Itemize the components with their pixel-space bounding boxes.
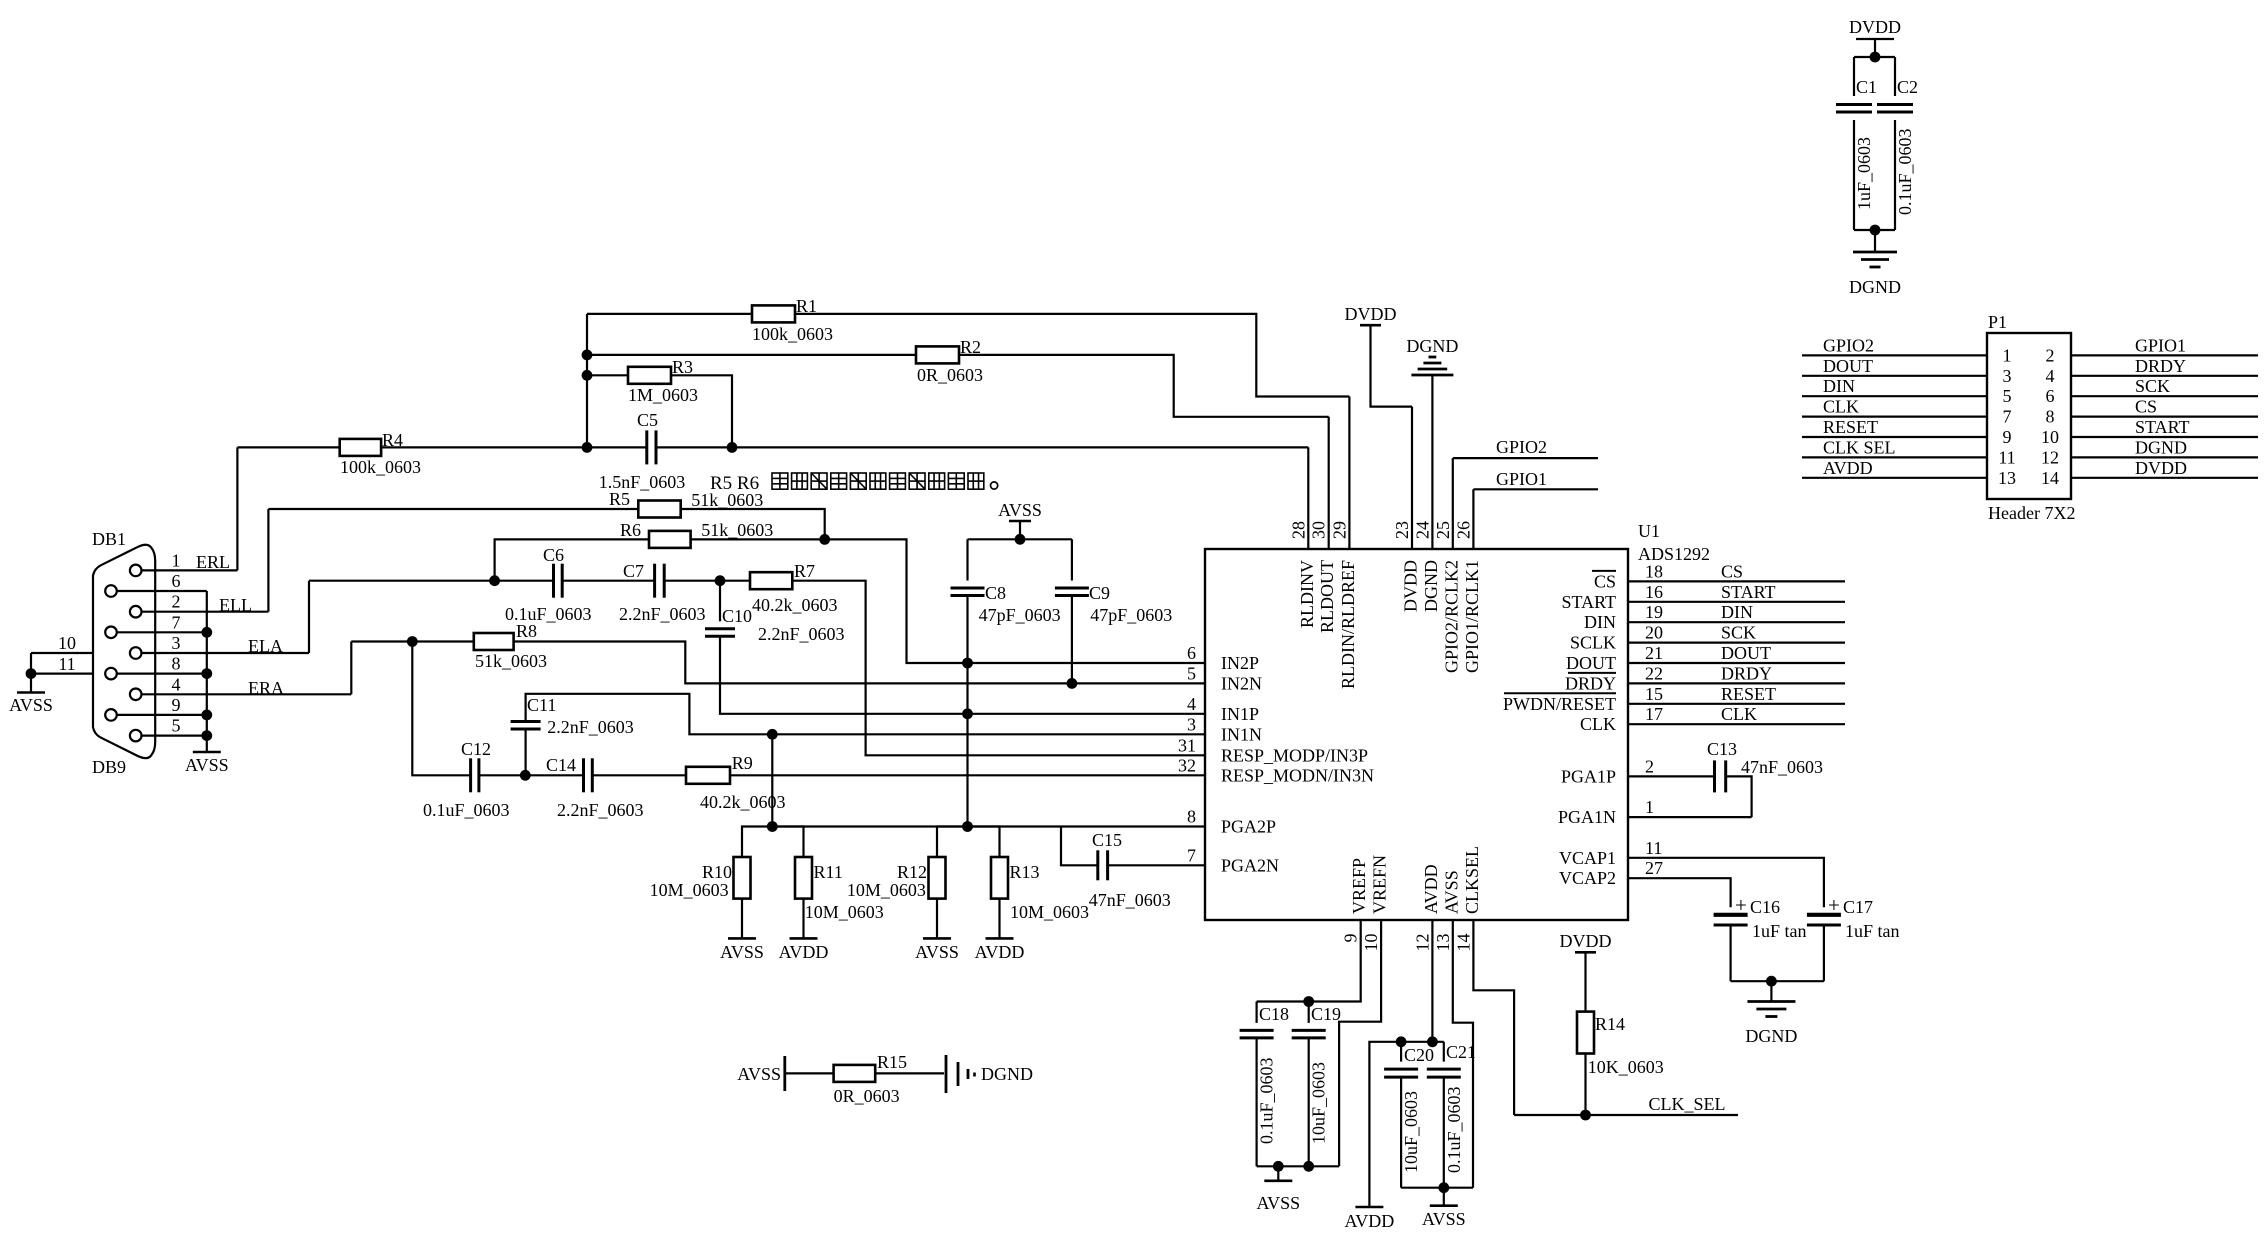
node R3-C5line bbox=[727, 442, 738, 453]
svg-text:7: 7 bbox=[2003, 407, 2012, 427]
svg-text:R3: R3 bbox=[672, 357, 693, 377]
U1 pin 23 DVDD top wire bbox=[1392, 407, 1421, 612]
svg-text:1M_0603: 1M_0603 bbox=[628, 385, 698, 405]
node riser-IN1P bbox=[962, 708, 973, 719]
P1 pin 11 wire / net CLK SEL bbox=[1802, 437, 2016, 467]
svg-text:R8: R8 bbox=[516, 621, 537, 641]
capacitor C15 47nF_0603 bracket bbox=[1061, 827, 1205, 911]
svg-text:AVSS: AVSS bbox=[915, 942, 959, 962]
capacitor C14 2.2nF_0603 bbox=[546, 755, 644, 820]
DB1 pin 3 circle and stub bbox=[130, 633, 309, 659]
DB1 pin 10 wire bbox=[31, 633, 93, 653]
resistor R6 51k_0603 bbox=[495, 520, 825, 581]
svg-text:32: 32 bbox=[1178, 755, 1196, 775]
svg-text:6: 6 bbox=[1187, 643, 1196, 663]
svg-text:C8: C8 bbox=[985, 583, 1006, 603]
wire R7 to RESP_MODP row 31 bbox=[792, 581, 1205, 756]
svg-text:100k_0603: 100k_0603 bbox=[752, 324, 833, 344]
node DGND stub bbox=[1766, 976, 1777, 987]
svg-text:5: 5 bbox=[2003, 386, 2012, 406]
overline for DRDY bbox=[1568, 672, 1616, 674]
svg-text:R9: R9 bbox=[732, 753, 753, 773]
node R12/R13 junction bbox=[962, 821, 973, 832]
P1 pin 4 wire / net DRDY bbox=[2046, 356, 2259, 386]
U1 pin 3 label IN1N bbox=[1187, 714, 1262, 744]
node R8-C12 junction bbox=[407, 636, 418, 647]
capacitor C8 47pF_0603 bbox=[951, 539, 1061, 663]
node riser-IN1N bbox=[767, 729, 778, 740]
U1 pin 10 VREFN bottom label bbox=[1361, 855, 1390, 952]
svg-text:11: 11 bbox=[1645, 838, 1662, 858]
node C8-IN2P bbox=[962, 658, 973, 669]
connector P1 Header 7X2 bbox=[1987, 312, 2075, 523]
svg-text:C9: C9 bbox=[1089, 583, 1110, 603]
svg-text:CLK: CLK bbox=[1721, 704, 1757, 724]
svg-text:CLKSEL: CLKSEL bbox=[1462, 846, 1482, 914]
svg-text:9: 9 bbox=[172, 695, 181, 715]
power symbol DVDD above U1 pin23 bbox=[1345, 304, 1413, 407]
svg-text:AVDD: AVDD bbox=[975, 942, 1025, 962]
node pin11 junction bbox=[26, 668, 37, 679]
svg-text:DRDY: DRDY bbox=[2135, 356, 2186, 376]
svg-text:RESP_MODN/IN3N: RESP_MODN/IN3N bbox=[1221, 765, 1374, 785]
node R14-CLKSEL bbox=[1580, 1110, 1591, 1121]
wire C7 to R7 bbox=[664, 580, 750, 582]
wire left trunk x=587 bbox=[586, 314, 588, 448]
svg-text:RLDOUT: RLDOUT bbox=[1317, 560, 1337, 633]
svg-text:24: 24 bbox=[1412, 521, 1432, 539]
svg-text:14: 14 bbox=[1453, 934, 1473, 952]
node DVDD-C1C2 top junction bbox=[1870, 52, 1881, 63]
node bus junction pin 5 bbox=[201, 730, 212, 741]
svg-text:10: 10 bbox=[1361, 934, 1381, 952]
svg-text:7: 7 bbox=[1187, 845, 1196, 865]
svg-text:2: 2 bbox=[1645, 756, 1654, 776]
DB1 pin 4 circle and stub bbox=[130, 674, 351, 700]
wire R8 to IN2N row bbox=[514, 642, 1205, 684]
ground DGND above U1 pin24 (inverted earth) bbox=[1406, 336, 1458, 375]
svg-text:10M_0603: 10M_0603 bbox=[650, 880, 729, 900]
wire PGA1N row bbox=[1628, 816, 1752, 818]
svg-text:4: 4 bbox=[172, 674, 181, 694]
resistor R1 100k_0603 bbox=[587, 296, 833, 344]
node C1/C2 bottom junction bbox=[1870, 225, 1881, 236]
svg-text:R13: R13 bbox=[1010, 862, 1040, 882]
connector DB1 (DB9) body bbox=[92, 529, 155, 777]
wire VCAP1 to C17 bbox=[1628, 858, 1824, 908]
U1 pin 18 CS / wire net CS bbox=[1594, 561, 1845, 591]
svg-text:CS: CS bbox=[1721, 561, 1743, 581]
svg-text:CS: CS bbox=[2135, 397, 2157, 417]
svg-text:8: 8 bbox=[2046, 407, 2055, 427]
capacitor C9 47pF_0603 bbox=[1055, 539, 1172, 683]
svg-text:R4: R4 bbox=[382, 430, 403, 450]
net CLK_SEL wire bbox=[1514, 1094, 1738, 1115]
wire U1 pin10 VREFN route bbox=[1339, 920, 1381, 1166]
svg-text:9: 9 bbox=[2003, 427, 2012, 447]
svg-text:RESET: RESET bbox=[1721, 684, 1776, 704]
svg-text:C14: C14 bbox=[546, 755, 576, 775]
svg-text:DGND: DGND bbox=[1406, 336, 1458, 356]
svg-text:AVSS: AVSS bbox=[737, 1064, 781, 1084]
svg-text:CLK: CLK bbox=[1823, 397, 1859, 417]
wire R5 right drop to R6 line bbox=[681, 509, 825, 539]
svg-text:3: 3 bbox=[1187, 714, 1196, 734]
wire C20/C21 bottom rail bbox=[1401, 1187, 1473, 1189]
wire R9 to RESP_MODN row 32 bbox=[730, 774, 1205, 776]
ground DGND (top right) bbox=[1849, 230, 1901, 297]
svg-text:100k_0603: 100k_0603 bbox=[340, 457, 421, 477]
svg-text:PWDN/RESET: PWDN/RESET bbox=[1503, 694, 1616, 714]
svg-text:0.1uF_0603: 0.1uF_0603 bbox=[1444, 1086, 1464, 1173]
svg-text:C11: C11 bbox=[527, 695, 556, 715]
svg-text:31: 31 bbox=[1178, 735, 1196, 755]
svg-text:AVDD: AVDD bbox=[1823, 458, 1873, 478]
capacitor C16 1uF tan (polarized) bbox=[1714, 893, 1807, 981]
ground AVSS left of DB1 bbox=[9, 674, 53, 715]
capacitor C5 1.5nF_0603 on RLDIN line bbox=[587, 410, 1308, 492]
svg-text:PGA2N: PGA2N bbox=[1221, 855, 1279, 875]
U1 pin 8 label PGA2P bbox=[1187, 807, 1276, 837]
DB1 pin 11 wire bbox=[31, 654, 93, 674]
svg-text:27: 27 bbox=[1645, 858, 1663, 878]
svg-text:2.2nF_0603: 2.2nF_0603 bbox=[619, 604, 706, 624]
U1 pin 29 RLDIN/RLDREF top wire bbox=[1329, 397, 1358, 690]
node C9-IN2N bbox=[1067, 678, 1078, 689]
U1 pin 7 label PGA2N bbox=[1187, 845, 1279, 875]
svg-text:U1: U1 bbox=[1638, 521, 1660, 541]
DB1 pin 9 circle and stub bbox=[105, 695, 207, 721]
svg-text:20: 20 bbox=[1645, 623, 1663, 643]
svg-text:0.1uF_0603: 0.1uF_0603 bbox=[1895, 128, 1915, 215]
ground AVDD below R11 bbox=[779, 938, 829, 962]
svg-text:C13: C13 bbox=[1707, 739, 1737, 759]
svg-text:GPIO2: GPIO2 bbox=[1823, 335, 1874, 355]
svg-text:ELL: ELL bbox=[219, 595, 252, 615]
node R5/R6 join bbox=[819, 534, 830, 545]
svg-text:25: 25 bbox=[1433, 521, 1453, 539]
capacitor C1 1uF_0603 bbox=[1836, 77, 1877, 210]
svg-text:1uF tan: 1uF tan bbox=[1845, 921, 1900, 941]
svg-text:8: 8 bbox=[172, 654, 181, 674]
svg-text:6: 6 bbox=[172, 571, 181, 591]
net ELL wire (DB1 pin2 to R5) bbox=[219, 509, 268, 615]
resistor R15 0R_0603 bbox=[785, 1052, 944, 1106]
power symbol DVDD above R14 bbox=[1560, 931, 1612, 1012]
node bus junction pin 8 bbox=[201, 668, 212, 679]
U1 pin 28 RLDINV top wire bbox=[1288, 447, 1317, 628]
wire R1 to U1 pin29 bbox=[795, 314, 1349, 397]
node C19 bottom bbox=[1303, 1161, 1314, 1172]
svg-text:19: 19 bbox=[1645, 602, 1663, 622]
overline for CS bbox=[1592, 570, 1616, 572]
resistor R2 0R_0603 bbox=[587, 337, 983, 385]
svg-text:0R_0603: 0R_0603 bbox=[834, 1086, 900, 1106]
svg-text:R12: R12 bbox=[897, 862, 927, 882]
U1 pin 2 PGA1P bbox=[1561, 756, 1654, 786]
capacitor C12 0.1uF_0603 bbox=[423, 739, 510, 820]
U1 pin 27 VCAP2 bbox=[1559, 858, 1663, 888]
U1 pin 13 AVSS bottom label bbox=[1433, 870, 1462, 951]
svg-text:GPIO1: GPIO1 bbox=[1496, 469, 1547, 489]
svg-text:DVDD: DVDD bbox=[1560, 931, 1612, 951]
capacitor C13 47nF_0603 bbox=[1628, 739, 1823, 817]
resistor R10 10M_0603 bbox=[650, 827, 773, 939]
svg-text:14: 14 bbox=[2041, 468, 2059, 488]
svg-text:VCAP2: VCAP2 bbox=[1559, 868, 1616, 888]
capacitor C10 2.2nF_0603 bbox=[705, 581, 1205, 714]
net ELA wire (DB1 pin3 riser) bbox=[248, 581, 309, 656]
P1 pin 5 wire / net DIN bbox=[1802, 376, 2012, 406]
svg-text:51k_0603: 51k_0603 bbox=[701, 520, 773, 540]
svg-text:SCK: SCK bbox=[1721, 623, 1756, 643]
svg-text:SCK: SCK bbox=[2135, 376, 2170, 396]
svg-text:+: + bbox=[1828, 893, 1840, 917]
wire C18/C19 bottom rail bbox=[1257, 1165, 1340, 1167]
U1 pin 15 PWDN/RESET / wire net RESET bbox=[1503, 684, 1845, 714]
P1 pin 14 wire / net DVDD bbox=[2041, 458, 2258, 488]
DB1 ground bus (pins 6,7,8,9,5) bbox=[206, 591, 208, 752]
DB1 pin 1 circle and stub bbox=[130, 550, 238, 576]
P1 pin 1 wire / net GPIO2 bbox=[1802, 335, 2012, 365]
DB1 pin 7 circle and stub bbox=[105, 612, 207, 638]
svg-text:R15: R15 bbox=[877, 1052, 907, 1072]
capacitor C19 10uF_0603 bbox=[1292, 1002, 1341, 1167]
capacitor C11 2.2nF_0603 bbox=[511, 694, 1205, 776]
svg-text:C21: C21 bbox=[1446, 1042, 1476, 1062]
capacitor C18 0.1uF_0603 bbox=[1240, 1002, 1289, 1167]
svg-text:1uF tan: 1uF tan bbox=[1752, 921, 1807, 941]
wire U1 pin14 CLKSEL route bbox=[1473, 920, 1514, 1115]
net GPIO2 wire bbox=[1453, 437, 1598, 458]
resistor R5 51k_0603 bbox=[268, 489, 763, 518]
svg-text:GPIO2/RCLK2: GPIO2/RCLK2 bbox=[1441, 560, 1461, 673]
ground AVDD below R13 bbox=[975, 938, 1025, 962]
svg-text:AVSS: AVSS bbox=[1441, 870, 1461, 914]
svg-text:AVSS: AVSS bbox=[1422, 1209, 1466, 1229]
svg-text:R7: R7 bbox=[794, 561, 815, 581]
capacitor C6 0.1uF_0603 bbox=[309, 545, 592, 624]
svg-text:IN2N: IN2N bbox=[1221, 673, 1262, 693]
U1 pin 14 CLKSEL bottom label bbox=[1453, 846, 1482, 952]
node pin12-rail bbox=[1427, 1036, 1438, 1047]
svg-text:10M_0603: 10M_0603 bbox=[1010, 902, 1089, 922]
svg-text:DGND: DGND bbox=[981, 1064, 1033, 1084]
svg-text:C12: C12 bbox=[461, 739, 491, 759]
svg-text:DB9: DB9 bbox=[92, 757, 126, 777]
svg-text:DVDD: DVDD bbox=[1849, 17, 1901, 37]
svg-text:DIN: DIN bbox=[1823, 376, 1855, 396]
svg-text:2: 2 bbox=[172, 592, 181, 612]
wire R2 to U1 pin30 bbox=[959, 355, 1329, 417]
U1 pin 22 DRDY / wire net DRDY bbox=[1565, 663, 1845, 693]
capacitor C20 10uF_0603 bbox=[1384, 1042, 1434, 1188]
wire VCAP2 to C16 bbox=[1628, 878, 1731, 907]
svg-text:CS: CS bbox=[1594, 571, 1616, 591]
wire R3 right drop to C5 line bbox=[671, 375, 732, 447]
ground DGND right of R15 (sideways) bbox=[946, 1055, 1033, 1093]
svg-text:C16: C16 bbox=[1750, 897, 1780, 917]
node trunk-R3 bbox=[582, 370, 593, 381]
wire C8/C9 top rail bbox=[968, 538, 1072, 540]
svg-text:C15: C15 bbox=[1092, 830, 1122, 850]
wire PGA2P row bbox=[772, 825, 1205, 827]
ground AVSS below C18/C19 bbox=[1256, 1166, 1300, 1213]
ground DGND below C16/C17 bbox=[1745, 981, 1797, 1046]
svg-text:R11: R11 bbox=[814, 862, 843, 882]
svg-text:SCLK: SCLK bbox=[1570, 633, 1616, 653]
P1 pin 2 wire / net GPIO1 bbox=[2046, 335, 2259, 365]
wire C20/C21 top rail + AVDD riser bbox=[1369, 1042, 1443, 1207]
U1 pin 30 RLDOUT top wire bbox=[1309, 417, 1338, 633]
svg-text:C19: C19 bbox=[1311, 1004, 1341, 1024]
svg-text:4: 4 bbox=[2046, 366, 2055, 386]
svg-text:10uF_0603: 10uF_0603 bbox=[1401, 1091, 1421, 1173]
resistor R13 10M_0603 bbox=[968, 827, 1090, 939]
svg-text:10M_0603: 10M_0603 bbox=[847, 880, 926, 900]
svg-text:10K_0603: 10K_0603 bbox=[1588, 1057, 1664, 1077]
wire pin10/11 join bbox=[30, 653, 32, 674]
svg-text:29: 29 bbox=[1329, 521, 1349, 539]
net AVSS port (R15 left) bbox=[737, 1056, 785, 1091]
svg-text:51k_0603: 51k_0603 bbox=[475, 651, 547, 671]
svg-text:13: 13 bbox=[1998, 468, 2016, 488]
node bus junction pin 9 bbox=[201, 710, 212, 721]
ground AVSS below C20/C21 bbox=[1422, 1188, 1466, 1229]
U1 pin 17 CLK / wire net CLK bbox=[1580, 704, 1845, 734]
svg-text:47nF_0603: 47nF_0603 bbox=[1089, 890, 1171, 910]
overline for PWDN/RESET bbox=[1504, 692, 1616, 694]
U1 pin 4 label IN1P bbox=[1187, 694, 1259, 724]
resistor R11 10M_0603 bbox=[772, 827, 883, 939]
svg-text:16: 16 bbox=[1645, 582, 1663, 602]
P1 pin 12 wire / net DGND bbox=[2041, 437, 2258, 467]
power AVDD below rail bbox=[1345, 1207, 1395, 1231]
U1 pin 31 label RESP_MODP/IN3P bbox=[1178, 735, 1368, 765]
svg-text:+: + bbox=[1735, 893, 1747, 917]
svg-text:C1: C1 bbox=[1856, 77, 1877, 97]
node bus junction pin 7 bbox=[201, 627, 212, 638]
svg-text:AVSS: AVSS bbox=[185, 755, 229, 775]
svg-text:3: 3 bbox=[2003, 366, 2012, 386]
svg-text:28: 28 bbox=[1288, 521, 1308, 539]
svg-text:12: 12 bbox=[1412, 934, 1432, 952]
svg-text:START: START bbox=[1721, 582, 1775, 602]
svg-text:18: 18 bbox=[1645, 561, 1663, 581]
svg-text:RLDIN/RLDREF: RLDIN/RLDREF bbox=[1338, 560, 1358, 689]
svg-text:VREFP: VREFP bbox=[1349, 858, 1369, 914]
U1 pin 25 GPIO2/RCLK2 top wire bbox=[1433, 458, 1462, 673]
svg-text:DOUT: DOUT bbox=[1566, 653, 1616, 673]
wire U1 pin13 AVSS route bbox=[1453, 920, 1473, 1188]
svg-text:CLK: CLK bbox=[1580, 714, 1616, 734]
svg-text:12: 12 bbox=[2041, 447, 2059, 467]
svg-text:DVDD: DVDD bbox=[2135, 458, 2187, 478]
svg-text:1: 1 bbox=[1645, 797, 1654, 817]
P1 pin 6 wire / net SCK bbox=[2046, 376, 2259, 406]
svg-text:DVDD: DVDD bbox=[1401, 560, 1421, 612]
svg-text:AVDD: AVDD bbox=[1345, 1211, 1395, 1231]
svg-text:1uF_0603: 1uF_0603 bbox=[1854, 137, 1874, 210]
svg-text:2: 2 bbox=[2046, 345, 2055, 365]
svg-text:R14: R14 bbox=[1595, 1014, 1625, 1034]
svg-text:17: 17 bbox=[1645, 704, 1663, 724]
U1 pin 5 label IN2N bbox=[1187, 663, 1262, 693]
wire C12 to C14 bbox=[479, 774, 584, 776]
svg-text:PGA1P: PGA1P bbox=[1561, 766, 1616, 786]
svg-text:9: 9 bbox=[1341, 934, 1361, 943]
wire C8 riser to IN1P and R12/R13 bbox=[966, 663, 968, 827]
svg-text:GPIO2: GPIO2 bbox=[1496, 437, 1547, 457]
svg-text:8: 8 bbox=[1187, 807, 1196, 827]
svg-text:5: 5 bbox=[172, 716, 181, 736]
DB1 pin 6 circle and stub bbox=[105, 571, 207, 597]
wire C12 riser from R8 line bbox=[412, 642, 470, 776]
svg-text:26: 26 bbox=[1453, 521, 1473, 539]
node C6-line R6 junction bbox=[489, 575, 500, 586]
wire riser IN1N to R10/R11 junction bbox=[771, 734, 773, 826]
U1 pin 11 VCAP1 bbox=[1559, 838, 1662, 868]
U1 pin 6 label IN2P bbox=[1187, 643, 1259, 673]
P1 pin 13 wire / net AVDD bbox=[1802, 458, 2016, 488]
svg-text:47nF_0603: 47nF_0603 bbox=[1741, 757, 1823, 777]
U1 pin 26 GPIO1/RCLK1 top wire bbox=[1453, 489, 1482, 673]
resistor R7 40.2k_0603 bbox=[750, 561, 838, 615]
DB1 pin 5 circle and stub bbox=[130, 716, 207, 742]
node AVSS stub C18C19 bbox=[1273, 1161, 1284, 1172]
net ERL wire (DB1 pin1 to R4) bbox=[196, 447, 237, 572]
svg-text:R10: R10 bbox=[702, 862, 732, 882]
wire C16/C17 bottom rail bbox=[1731, 980, 1824, 982]
ground AVSS below DB1 bus bbox=[185, 752, 229, 775]
svg-text:CLK_SEL: CLK_SEL bbox=[1649, 1094, 1726, 1114]
U1 pin 20 SCLK / wire net SCK bbox=[1570, 623, 1845, 653]
net ERA wire (DB1 pin4 riser) bbox=[248, 642, 351, 699]
capacitor C7 2.2nF_0603 bbox=[562, 561, 705, 624]
power symbol AVSS above C8/C9 bbox=[998, 500, 1042, 539]
svg-text:2.2nF_0603: 2.2nF_0603 bbox=[557, 800, 644, 820]
svg-text:10: 10 bbox=[2041, 427, 2059, 447]
resistor R12 10M_0603 bbox=[847, 827, 968, 939]
annotation Chinese note bbox=[710, 473, 998, 494]
svg-text:DVDD: DVDD bbox=[1345, 304, 1397, 324]
capacitor C17 1uF tan (polarized) bbox=[1807, 893, 1900, 981]
svg-text:51k_0603: 51k_0603 bbox=[691, 490, 763, 510]
U1 pin 32 label RESP_MODN/IN3N bbox=[1178, 755, 1374, 785]
svg-text:10: 10 bbox=[58, 633, 76, 653]
svg-text:AVSS: AVSS bbox=[720, 942, 764, 962]
svg-text:0.1uF_0603: 0.1uF_0603 bbox=[1257, 1057, 1277, 1144]
svg-text:DIN: DIN bbox=[1721, 602, 1753, 622]
svg-text:R5: R5 bbox=[609, 489, 630, 509]
svg-text:3: 3 bbox=[172, 633, 181, 653]
svg-text:DGND: DGND bbox=[1849, 277, 1901, 297]
svg-text:DOUT: DOUT bbox=[1721, 643, 1771, 663]
svg-text:2.2nF_0603: 2.2nF_0603 bbox=[547, 717, 634, 737]
P1 pin 9 wire / net RESET bbox=[1802, 417, 2012, 447]
svg-text:AVSS: AVSS bbox=[998, 500, 1042, 520]
svg-text:DGND: DGND bbox=[1421, 560, 1441, 612]
node C20 top bbox=[1396, 1036, 1407, 1047]
net GPIO1 wire bbox=[1473, 469, 1598, 489]
P1 pin 3 wire / net DOUT bbox=[1802, 356, 2012, 386]
svg-text:ERA: ERA bbox=[248, 678, 284, 698]
svg-text:13: 13 bbox=[1433, 934, 1453, 952]
svg-text:R6: R6 bbox=[620, 520, 641, 540]
svg-text:C18: C18 bbox=[1259, 1004, 1289, 1024]
svg-text:15: 15 bbox=[1645, 684, 1663, 704]
svg-text:PGA1N: PGA1N bbox=[1558, 807, 1616, 827]
